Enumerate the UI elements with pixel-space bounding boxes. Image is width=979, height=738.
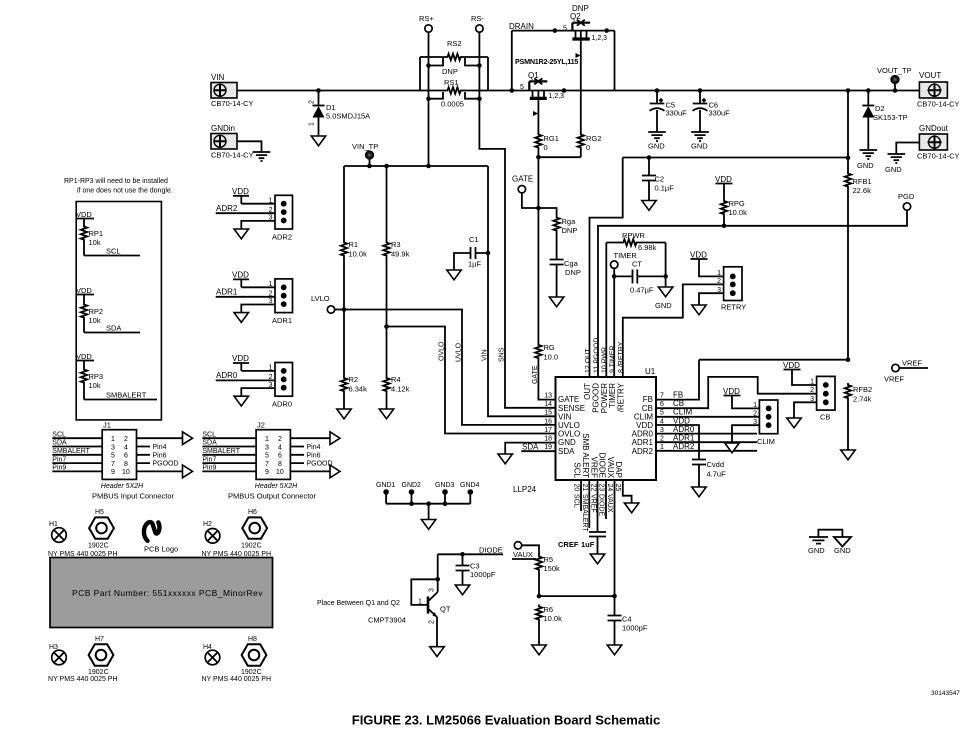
capacitor C1 1uF bbox=[454, 235, 490, 270]
wire RETRY pin3 to gnd bbox=[699, 293, 724, 305]
svg-text:J2: J2 bbox=[257, 421, 265, 430]
test point PGD bbox=[898, 192, 915, 210]
svg-text:2: 2 bbox=[810, 387, 814, 394]
svg-text:1: 1 bbox=[269, 281, 273, 288]
wire GNDout to ground bbox=[896, 143, 919, 155]
svg-text:Cvdd: Cvdd bbox=[707, 460, 725, 469]
wire: RPWR/CT to gnd bbox=[665, 243, 667, 288]
svg-text:RP3: RP3 bbox=[89, 372, 104, 381]
ground (arrow) ADR0 bbox=[234, 396, 248, 406]
ground (arrow) legend bbox=[834, 537, 851, 555]
svg-text:Pin9: Pin9 bbox=[52, 465, 66, 472]
svg-text:23: 23 bbox=[598, 484, 605, 492]
svg-text:0.0005: 0.0005 bbox=[441, 100, 464, 109]
svg-text:1: 1 bbox=[418, 599, 422, 606]
U1 right pin names bbox=[632, 395, 654, 456]
svg-text:RP1: RP1 bbox=[89, 229, 104, 238]
svg-text:150k: 150k bbox=[544, 564, 561, 573]
svg-text:R6: R6 bbox=[544, 605, 554, 614]
svg-text:3: 3 bbox=[265, 444, 269, 451]
svg-text:H5: H5 bbox=[95, 509, 104, 516]
resistor RS1 0.0005 bbox=[441, 78, 464, 109]
svg-text:H1: H1 bbox=[49, 521, 58, 528]
svg-text:SDA: SDA bbox=[202, 440, 217, 447]
ground (bar) D2 bbox=[857, 150, 877, 170]
svg-text:Header 5X2H: Header 5X2H bbox=[101, 483, 144, 490]
svg-text:13: 13 bbox=[544, 393, 552, 400]
svg-text:6: 6 bbox=[124, 453, 128, 460]
svg-text:3: 3 bbox=[429, 588, 436, 592]
ground (arrow) D1 bbox=[311, 136, 325, 146]
diode D2 SK153-TP bbox=[862, 88, 907, 150]
svg-text:VIN_TP: VIN_TP bbox=[352, 142, 378, 151]
svg-text:1µF: 1µF bbox=[468, 260, 481, 269]
svg-text:Pin6: Pin6 bbox=[307, 452, 321, 459]
svg-text:SCL: SCL bbox=[573, 494, 580, 508]
svg-text:SMBALERT: SMBALERT bbox=[202, 448, 240, 455]
ground (arrow) CT bbox=[655, 287, 673, 310]
resistor R5 150k bbox=[536, 545, 560, 596]
svg-text:21: 21 bbox=[581, 484, 588, 492]
svg-text:5: 5 bbox=[520, 84, 524, 91]
svg-text:OVLO: OVLO bbox=[439, 341, 446, 361]
test point GATE bbox=[512, 175, 541, 211]
svg-text:2: 2 bbox=[429, 620, 436, 624]
svg-text:GND: GND bbox=[857, 161, 874, 170]
svg-text:14: 14 bbox=[544, 401, 552, 408]
svg-text:GND4: GND4 bbox=[460, 482, 480, 489]
svg-text:330uF: 330uF bbox=[666, 109, 688, 118]
svg-text:SDA: SDA bbox=[522, 443, 539, 452]
svg-text:330uF: 330uF bbox=[709, 109, 731, 118]
mounting hole H3 bbox=[49, 644, 69, 667]
svg-text:ADR1: ADR1 bbox=[272, 316, 292, 325]
svg-text:1: 1 bbox=[269, 197, 273, 204]
connector ADR2 bbox=[216, 187, 293, 242]
wire: PGOOD riser and rail bbox=[598, 210, 907, 376]
U1 bottom pin numbers (outside) bbox=[573, 484, 622, 492]
wire: CLIM net bbox=[656, 416, 759, 418]
wire: VIN_TP rail bbox=[344, 165, 488, 167]
svg-text:GNDin: GNDin bbox=[211, 124, 235, 133]
ground (arrow) R4 bbox=[379, 409, 393, 419]
ground (arrow) C1 bbox=[447, 270, 461, 280]
ground (arrow) C3 bbox=[455, 585, 469, 595]
svg-text:Header 5X2H: Header 5X2H bbox=[255, 483, 298, 490]
svg-text:DIODE: DIODE bbox=[598, 453, 607, 478]
svg-text:30143547: 30143547 bbox=[931, 690, 960, 697]
svg-text:RPWR: RPWR bbox=[622, 231, 645, 240]
wire: gate join RG1-RG2 bbox=[538, 150, 580, 158]
ground (arrow) RETRY bbox=[692, 305, 706, 315]
svg-text:Q1: Q1 bbox=[528, 71, 539, 80]
svg-text:C4: C4 bbox=[622, 615, 632, 624]
svg-text:12 OUT: 12 OUT bbox=[585, 348, 592, 373]
svg-text:SCL: SCL bbox=[573, 462, 582, 478]
resistor R2 6.34k bbox=[341, 258, 367, 410]
svg-text:H7: H7 bbox=[95, 636, 104, 643]
svg-text:VDD: VDD bbox=[232, 271, 249, 280]
ground (arrow) GND1-4 bbox=[421, 520, 435, 530]
connector RETRY bbox=[717, 267, 746, 312]
wire: GND pin18 bbox=[505, 443, 555, 454]
svg-text:0.47µF: 0.47µF bbox=[630, 286, 654, 295]
svg-text:49.9k: 49.9k bbox=[391, 250, 410, 259]
ground (arrow) CB bbox=[787, 418, 801, 428]
resistor RG2 0 bbox=[578, 133, 602, 153]
transistor Q1 PSMN1R2-25YL bbox=[520, 71, 564, 133]
svg-text:PSMN1R2-25YL,115: PSMN1R2-25YL,115 bbox=[515, 57, 578, 66]
ground (arrow) ADR1 bbox=[234, 313, 248, 323]
wire CLIM pin3 to gnd bbox=[732, 425, 759, 443]
resistor RG1 0 bbox=[535, 133, 559, 153]
svg-text:SMBALERT: SMBALERT bbox=[52, 448, 90, 455]
ground (arrow) pin18 bbox=[498, 454, 512, 464]
wire: CB net bbox=[656, 377, 817, 408]
svg-text:2: 2 bbox=[309, 100, 316, 104]
connector J1 PMBUS input bbox=[52, 421, 182, 501]
ground (arrow) Cga bbox=[549, 297, 563, 307]
svg-text:GATE: GATE bbox=[532, 365, 539, 384]
wire: RS+ kelvin bbox=[429, 32, 444, 166]
standoff H6 bbox=[241, 509, 267, 550]
svg-text:CMPT3904: CMPT3904 bbox=[368, 616, 406, 625]
svg-text:DIODE: DIODE bbox=[598, 494, 605, 517]
svg-text:2: 2 bbox=[278, 436, 282, 443]
connector GNDout CB70-14-CY bbox=[917, 124, 960, 161]
svg-text:10k: 10k bbox=[89, 381, 101, 390]
resistor RFB1 22.6k bbox=[845, 91, 872, 360]
wire: main VIN-VOUT rail bbox=[237, 90, 919, 92]
svg-text:1: 1 bbox=[111, 436, 115, 443]
svg-text:CB70-14-CY: CB70-14-CY bbox=[211, 99, 254, 108]
svg-text:PGOOD: PGOOD bbox=[153, 461, 179, 468]
svg-text:Cga: Cga bbox=[564, 259, 579, 268]
svg-text:SMBALERT: SMBALERT bbox=[106, 391, 147, 400]
svg-text:8: 8 bbox=[278, 461, 282, 468]
connector VOUT CB70-14-CY bbox=[917, 71, 960, 109]
resistor RG 10.0 bbox=[535, 343, 558, 362]
connector ADR1 bbox=[216, 271, 293, 326]
svg-text:SNS: SNS bbox=[499, 347, 506, 362]
transistor Q2 (DNP) PSMN1R2-25YL bbox=[563, 4, 607, 133]
svg-text:22.6k: 22.6k bbox=[853, 186, 872, 195]
dongle pullup box bbox=[76, 202, 161, 420]
resistor RFB2 2.74k bbox=[845, 383, 872, 450]
svg-text:1uF: 1uF bbox=[581, 540, 595, 549]
resistor RPG 10.0k with VDD bbox=[715, 175, 747, 228]
svg-text:VDD: VDD bbox=[232, 354, 249, 363]
svg-text:1,2,3: 1,2,3 bbox=[592, 35, 608, 42]
wire: ADR0 ADR1 ADR2 stubs bbox=[656, 434, 757, 451]
standoff H5 bbox=[88, 509, 114, 550]
wire GNDin to ground bbox=[237, 141, 262, 152]
svg-text:6: 6 bbox=[278, 453, 282, 460]
svg-text:9 TIMER: 9 TIMER bbox=[610, 346, 617, 374]
svg-text:SDA: SDA bbox=[558, 447, 575, 456]
svg-text:DNP: DNP bbox=[442, 67, 458, 76]
op-amp U1 LM25066 body bbox=[513, 367, 656, 494]
svg-text:SCL: SCL bbox=[106, 247, 121, 256]
test point RS- bbox=[471, 14, 484, 32]
svg-text:VREF: VREF bbox=[884, 375, 904, 384]
svg-text:GATE: GATE bbox=[512, 175, 533, 184]
PCB part number box bbox=[50, 558, 273, 628]
svg-text:RETRY: RETRY bbox=[721, 303, 746, 312]
svg-text:ADR1: ADR1 bbox=[216, 288, 238, 297]
svg-text:PGD: PGD bbox=[898, 192, 915, 201]
resistor RP2 10k with VDD and SDA bbox=[76, 286, 140, 333]
svg-text:5.0SMDJ15A: 5.0SMDJ15A bbox=[326, 112, 370, 121]
svg-text:D2: D2 bbox=[875, 104, 885, 113]
svg-text:8: 8 bbox=[124, 461, 128, 468]
wire: GATE to pin13 bbox=[538, 157, 555, 399]
test points GND1-GND4 bbox=[376, 482, 480, 520]
svg-text:VIN: VIN bbox=[211, 73, 225, 82]
wire: R5/R6/C4 node bbox=[539, 595, 615, 597]
test point TIMER bbox=[611, 251, 638, 376]
svg-text:Pin9: Pin9 bbox=[202, 465, 216, 472]
svg-text:LLP24: LLP24 bbox=[513, 485, 537, 494]
ground (arrow) C4 bbox=[607, 645, 621, 655]
resistor RP3 10k with VDD and SMBALERT bbox=[76, 352, 157, 400]
svg-text:CT: CT bbox=[632, 260, 642, 269]
svg-text:GND: GND bbox=[648, 142, 665, 151]
svg-text:10: 10 bbox=[276, 469, 284, 476]
wire: PWR riser bbox=[605, 243, 607, 377]
svg-text:RG: RG bbox=[544, 343, 555, 352]
svg-text:PMBUS Output Connector: PMBUS Output Connector bbox=[228, 492, 316, 501]
svg-text:VAUX: VAUX bbox=[606, 457, 615, 479]
svg-text:VIN: VIN bbox=[482, 349, 489, 361]
svg-text:PGOOD: PGOOD bbox=[307, 461, 333, 468]
U1 left pin names bbox=[558, 395, 585, 456]
capacitor C4 1000pF bbox=[608, 596, 648, 645]
transistor QT CMPT3904 bbox=[368, 554, 451, 646]
svg-text:RS1: RS1 bbox=[444, 78, 459, 87]
ground (arrow) R6 bbox=[532, 645, 546, 655]
svg-text:C1: C1 bbox=[469, 235, 479, 244]
svg-text:VAUX: VAUX bbox=[513, 550, 533, 559]
svg-text:20: 20 bbox=[573, 484, 580, 492]
svg-text:1902C: 1902C bbox=[88, 543, 109, 550]
svg-text:H8: H8 bbox=[248, 636, 257, 643]
svg-text:Q2: Q2 bbox=[570, 12, 581, 21]
svg-text:LVLO: LVLO bbox=[311, 294, 330, 303]
wire: VIN net bbox=[488, 166, 556, 416]
wire DRAIN net bbox=[509, 22, 615, 93]
resistor RPWR 6.98k bbox=[606, 231, 665, 252]
svg-text:Place Between Q1 and Q2: Place Between Q1 and Q2 bbox=[317, 600, 400, 607]
ground (arrow) RFB2 bbox=[841, 450, 855, 460]
offpage flag J1 row1 bbox=[183, 432, 193, 445]
svg-text:DNP: DNP bbox=[562, 226, 578, 235]
PCB logo (National) bbox=[144, 522, 178, 553]
svg-text:DNP: DNP bbox=[565, 268, 581, 277]
svg-text:CB70-14-CY: CB70-14-CY bbox=[917, 100, 960, 109]
svg-text:5: 5 bbox=[563, 26, 567, 33]
svg-text:SMB ALERT: SMB ALERT bbox=[581, 433, 590, 478]
connector VIN CB70-14-CY bbox=[211, 73, 254, 108]
svg-text:VREF: VREF bbox=[902, 359, 922, 368]
svg-text:RP2: RP2 bbox=[89, 307, 104, 316]
svg-text:10k: 10k bbox=[89, 238, 101, 247]
svg-text:7: 7 bbox=[265, 461, 269, 468]
svg-text:VOUT_TP: VOUT_TP bbox=[877, 66, 912, 75]
svg-text:19: 19 bbox=[544, 444, 552, 451]
svg-text:8 /RETRY: 8 /RETRY bbox=[618, 341, 625, 373]
wire: SDA pin19 stub bbox=[521, 443, 555, 452]
svg-text:VREF: VREF bbox=[589, 494, 596, 513]
svg-text:U1: U1 bbox=[645, 367, 656, 376]
svg-text:6: 6 bbox=[660, 401, 664, 408]
svg-text:GNDout: GNDout bbox=[919, 124, 949, 133]
svg-text:FIGURE 23. LM25066 Evaluation: FIGURE 23. LM25066 Evaluation Board Sche… bbox=[352, 713, 661, 728]
svg-text:GND: GND bbox=[885, 165, 902, 174]
ground (bar) legend bbox=[808, 537, 828, 555]
svg-text:5: 5 bbox=[660, 410, 664, 417]
svg-text:2: 2 bbox=[717, 278, 721, 285]
wire: /RETRY riser bbox=[623, 284, 724, 376]
ground (arrow) DAP bbox=[624, 503, 638, 513]
svg-text:SDA: SDA bbox=[52, 440, 67, 447]
connector J2 PMBUS output bbox=[202, 421, 332, 501]
ground (bar) C6 bbox=[691, 132, 709, 151]
resistor R3 49.9k bbox=[383, 166, 409, 259]
svg-text:GND: GND bbox=[655, 301, 672, 310]
svg-text:Pin7: Pin7 bbox=[52, 456, 66, 463]
svg-text:3: 3 bbox=[111, 444, 115, 451]
svg-text:QT: QT bbox=[440, 605, 451, 614]
svg-text:CREF: CREF bbox=[558, 540, 579, 549]
connector GNDin CB70-14-CY bbox=[211, 124, 254, 160]
mounting hole H1 bbox=[49, 521, 69, 545]
svg-text:4.7uF: 4.7uF bbox=[707, 470, 727, 479]
svg-text:H2: H2 bbox=[203, 521, 212, 528]
svg-text:1: 1 bbox=[265, 436, 269, 443]
svg-text:SDA: SDA bbox=[106, 324, 121, 333]
svg-text:RP1-RP3 will need to be instal: RP1-RP3 will need to be installed bbox=[64, 178, 168, 185]
svg-text:15: 15 bbox=[544, 410, 552, 417]
svg-text:Pin4: Pin4 bbox=[307, 444, 321, 451]
wire: SMBALERT pin21 stub bbox=[588, 480, 590, 528]
wire: UVLO net bbox=[344, 310, 556, 425]
capacitor Cga DNP bbox=[550, 233, 581, 298]
svg-text:ADR2: ADR2 bbox=[216, 204, 238, 213]
capacitor C5 330uF bbox=[650, 88, 688, 132]
wire CB pin3 to gnd bbox=[794, 402, 817, 418]
ground (bar) C5 bbox=[648, 132, 666, 151]
note RP1-RP3 bbox=[64, 178, 173, 195]
svg-text:10 PWR: 10 PWR bbox=[602, 347, 609, 373]
svg-text:PCB Part Number: 551xxxxxx: PCB Part Number: 551xxxxxx PCB_MinorRev bbox=[72, 588, 263, 598]
mounting hole H2 bbox=[203, 521, 223, 546]
wire: VDD pin4 to Cvdd bbox=[656, 425, 699, 460]
svg-text:0: 0 bbox=[544, 143, 548, 152]
vertical net labels left of U1 bbox=[439, 341, 539, 384]
U1 right pin numbers and nets bbox=[660, 391, 695, 452]
test point VOUT_TP bbox=[877, 66, 912, 93]
svg-text:J1: J1 bbox=[103, 421, 111, 430]
capacitor C2 0.1uF bbox=[642, 158, 674, 201]
svg-text:RPG: RPG bbox=[729, 199, 745, 208]
resistor R4 4.12k bbox=[383, 258, 409, 410]
svg-text:/RETRY: /RETRY bbox=[616, 382, 625, 412]
connector ADR0 bbox=[216, 354, 293, 409]
ground (arrow) QT bbox=[430, 647, 444, 657]
svg-text:SCL: SCL bbox=[202, 431, 216, 438]
svg-text:ADR2: ADR2 bbox=[632, 447, 654, 456]
svg-text:5: 5 bbox=[265, 453, 269, 460]
svg-text:9: 9 bbox=[265, 469, 269, 476]
wire: OUT rail bbox=[623, 157, 848, 159]
svg-text:2: 2 bbox=[753, 410, 757, 417]
connector CB bbox=[810, 376, 835, 421]
U1 bottom pin names (inside) bbox=[573, 433, 624, 478]
U1 bottom net labels (outside, vertical) bbox=[573, 494, 613, 532]
capacitor CREF 1uF bbox=[558, 532, 606, 554]
svg-text:2.74k: 2.74k bbox=[853, 395, 872, 404]
test point RS+ bbox=[419, 14, 434, 32]
svg-text:CB: CB bbox=[820, 413, 830, 422]
svg-text:if one does not use the dongle: if one does not use the dongle. bbox=[77, 188, 173, 195]
svg-text:R1: R1 bbox=[349, 240, 359, 249]
svg-text:2: 2 bbox=[124, 436, 128, 443]
svg-text:R2: R2 bbox=[349, 375, 359, 384]
svg-text:R3: R3 bbox=[391, 240, 401, 249]
svg-text:ADR0: ADR0 bbox=[272, 400, 292, 409]
wire: DAP pin25 bbox=[623, 480, 632, 503]
svg-text:10.0: 10.0 bbox=[544, 353, 559, 362]
svg-text:1: 1 bbox=[309, 122, 316, 126]
test point VAUX bbox=[512, 542, 539, 559]
wire VDD to CLIM pin1 bbox=[723, 387, 759, 408]
ground (bar) GNDout bbox=[885, 154, 905, 174]
svg-text:VDD: VDD bbox=[232, 187, 249, 196]
offpage flag J2 row5 bbox=[330, 465, 340, 478]
resistor Rga DNP bbox=[538, 208, 577, 235]
resistor R1 10.0k bbox=[341, 166, 367, 259]
svg-text:SMBALERT: SMBALERT bbox=[581, 494, 588, 532]
U1 top pin names (inside) bbox=[583, 382, 625, 413]
svg-text:GND: GND bbox=[834, 546, 851, 555]
svg-text:10.0k: 10.0k bbox=[349, 250, 368, 259]
svg-text:1902C: 1902C bbox=[241, 543, 262, 550]
svg-text:NY PMS 440 0025 PH: NY PMS 440 0025 PH bbox=[202, 676, 272, 683]
svg-text:DAP: DAP bbox=[614, 462, 623, 478]
wire: FB rail bbox=[656, 360, 848, 400]
svg-text:Pin6: Pin6 bbox=[153, 452, 167, 459]
capacitor C3 1000pF bbox=[456, 554, 496, 585]
svg-text:6.98k: 6.98k bbox=[638, 243, 657, 252]
capacitor CT 0.47uF bbox=[614, 260, 665, 295]
U1 top pin numbers+nets (outside, vertical) bbox=[585, 338, 625, 373]
resistor RS2 (DNP) bbox=[442, 39, 463, 76]
svg-text:VREF: VREF bbox=[589, 457, 598, 478]
svg-text:UVLO: UVLO bbox=[456, 342, 463, 362]
svg-text:GND: GND bbox=[691, 142, 708, 151]
test point VIN_TP bbox=[352, 142, 378, 166]
ground (arrow) C2 bbox=[642, 201, 656, 211]
svg-text:GND: GND bbox=[808, 546, 825, 555]
svg-text:4.12k: 4.12k bbox=[391, 385, 410, 394]
svg-text:DIODE: DIODE bbox=[479, 546, 503, 555]
svg-text:1000pF: 1000pF bbox=[470, 570, 496, 579]
svg-text:9: 9 bbox=[111, 469, 115, 476]
resistor RP1 10k with VDD and SCL bbox=[76, 210, 140, 256]
node DIODE bbox=[438, 546, 503, 557]
svg-text:DRAIN: DRAIN bbox=[509, 22, 534, 31]
